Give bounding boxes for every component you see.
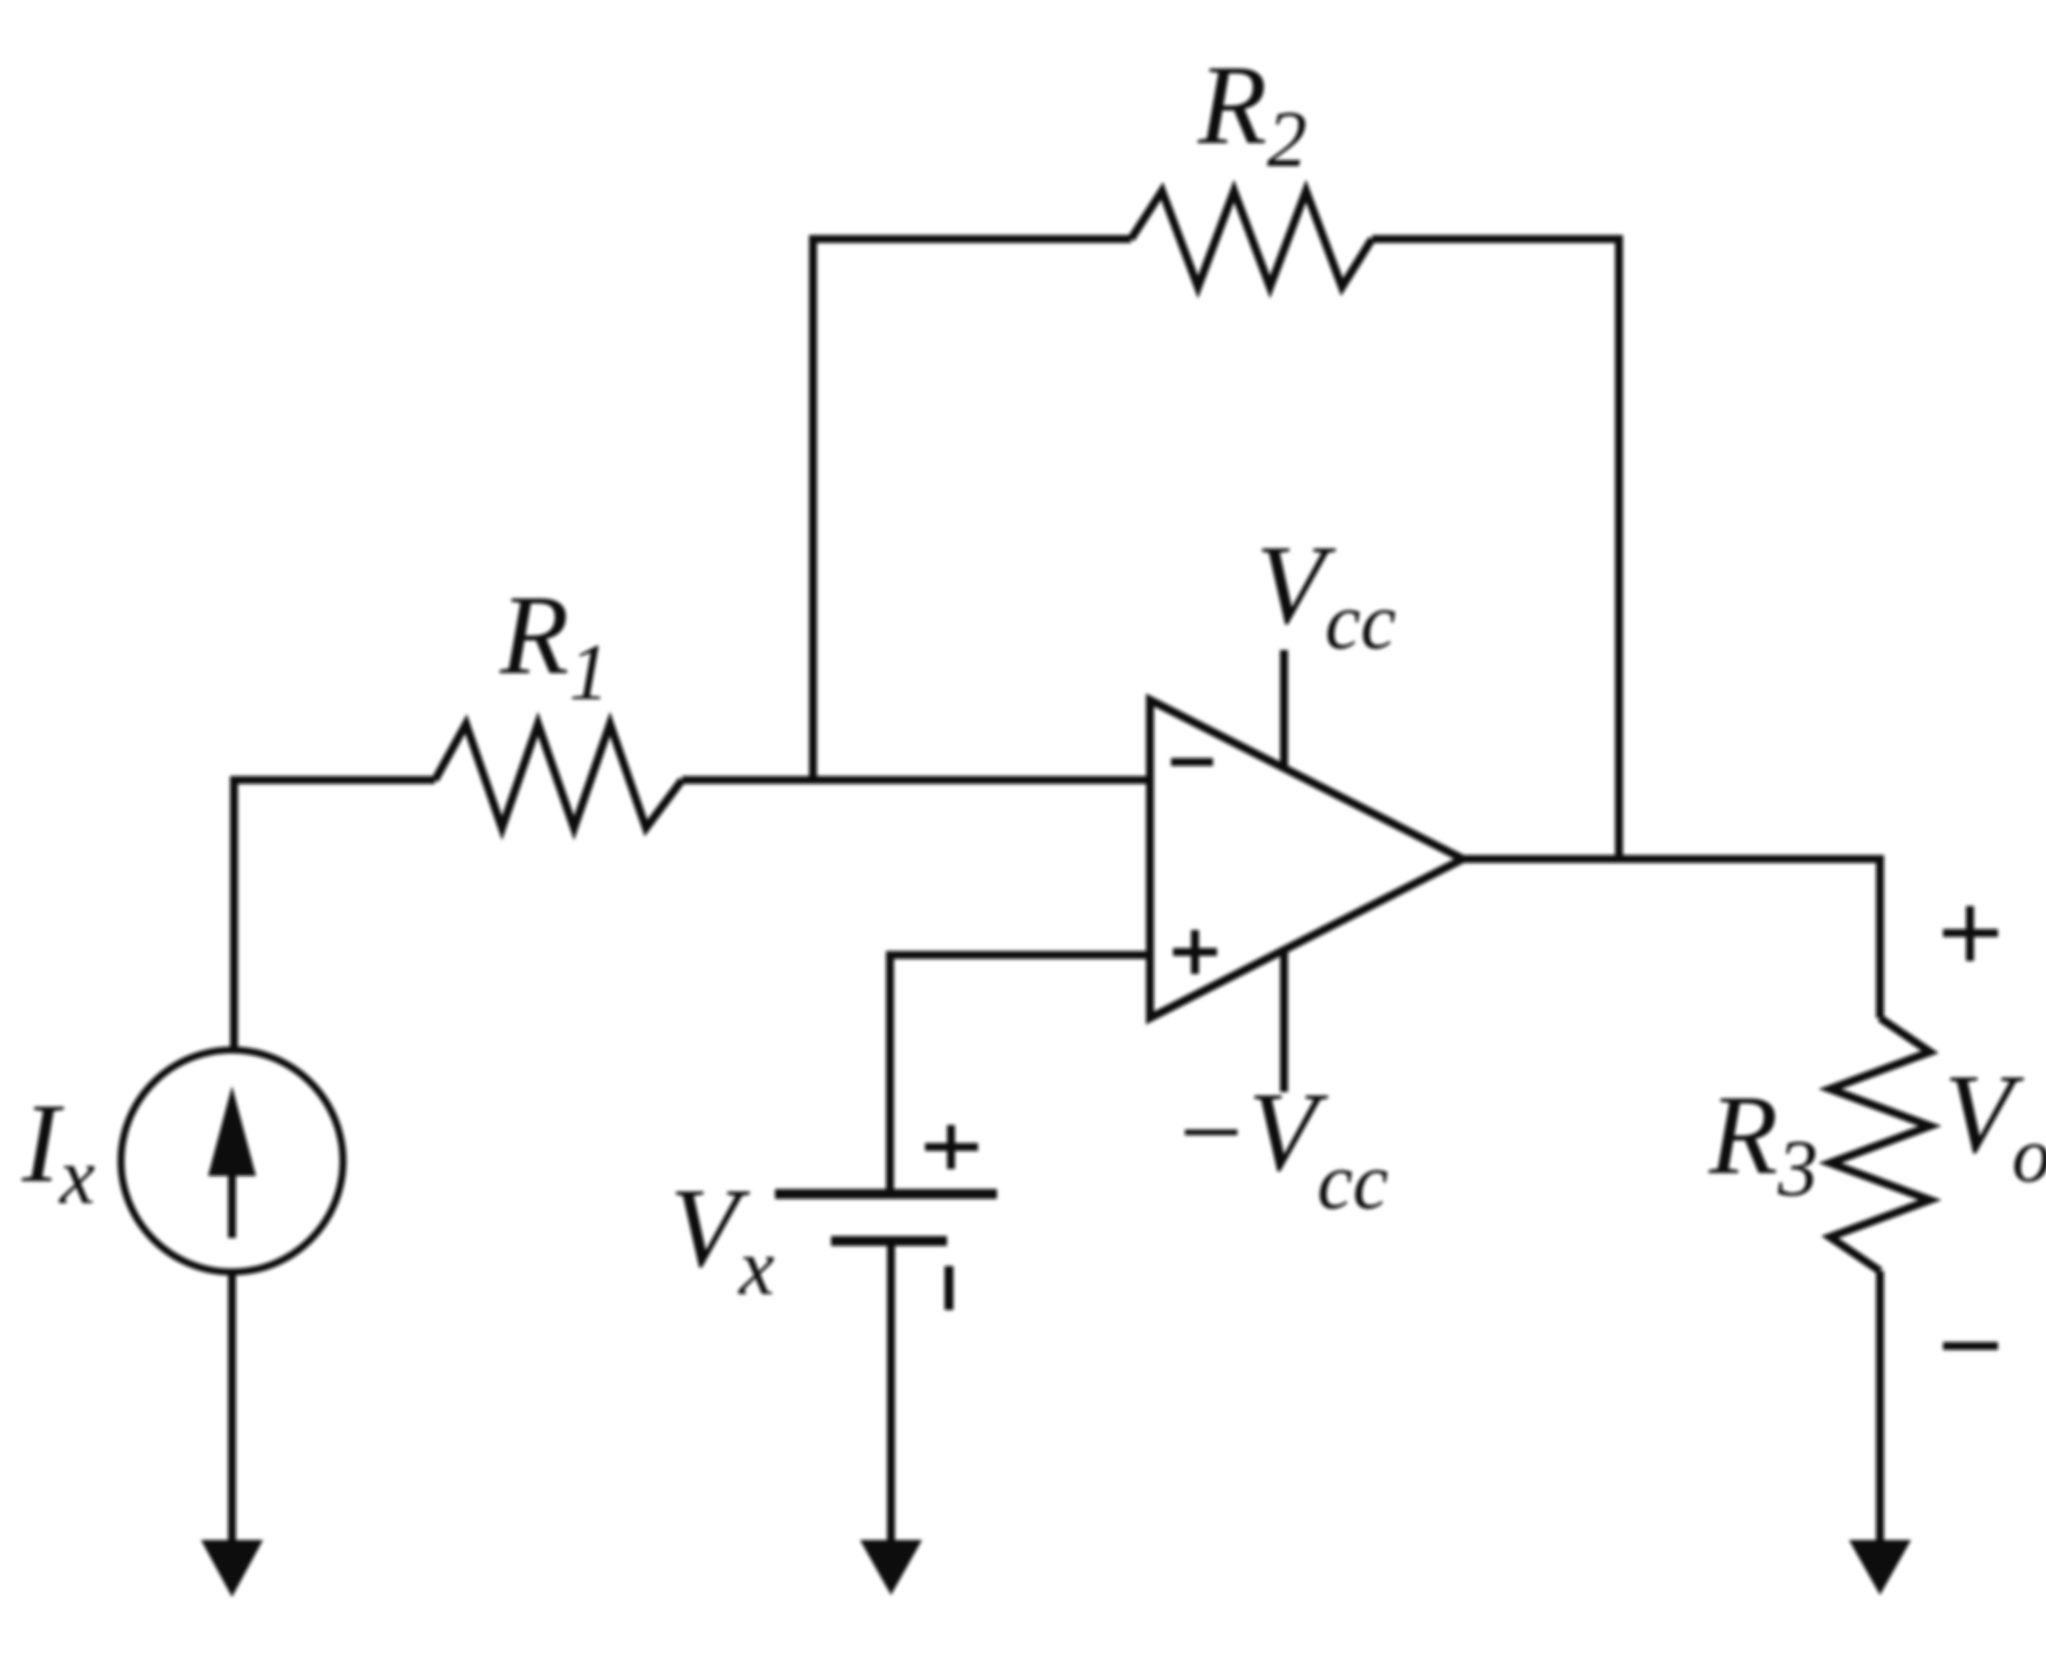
battery Vx plus sign — [925, 1125, 978, 1169]
wire current source to ground arrow — [228, 1272, 236, 1542]
wire output: apex to R3 top corner — [1463, 859, 1880, 1018]
wire Vcc pin — [1280, 650, 1288, 767]
current source Ix circle — [121, 1050, 343, 1272]
label Vo plus sign — [1943, 906, 1998, 961]
svg-text:Vx: Vx — [670, 1166, 775, 1312]
op-amp U1 minus input sign — [1171, 758, 1213, 766]
svg-text:Ix: Ix — [21, 1081, 95, 1221]
wire R3 to ground arrow — [1876, 1271, 1884, 1542]
svg-text:R2: R2 — [1197, 43, 1307, 184]
resistor R3 — [1830, 1018, 1930, 1271]
wire R1 to op-amp inverting input — [682, 776, 1150, 784]
battery Vx minus sign — [945, 1266, 954, 1310]
battery Vx top plate — [775, 1189, 997, 1199]
current source Ix arrow shaft — [228, 1172, 236, 1238]
resistor R1 — [435, 724, 682, 828]
ground arrow below current source — [201, 1540, 263, 1597]
label Vo minus sign — [1943, 1342, 1998, 1350]
battery Vx bottom plate — [831, 1236, 947, 1246]
op-amp U1 — [1150, 700, 1463, 1018]
op-amp U1 plus input sign — [1173, 930, 1217, 974]
ground arrow below battery — [860, 1540, 922, 1595]
svg-text:R3: R3 — [1708, 1073, 1818, 1213]
wire battery to ground arrow — [887, 1241, 895, 1542]
svg-text:Vcc: Vcc — [1256, 523, 1396, 666]
resistor R2 — [1131, 191, 1372, 287]
ground arrow below R3 — [1849, 1540, 1911, 1595]
svg-text:R1: R1 — [499, 573, 609, 717]
wire left node: from current-source top up and right to R1 — [234, 780, 435, 1050]
wire feedback left: node up to top and right to R2 — [813, 239, 1131, 780]
current source Ix arrow head — [208, 1086, 256, 1176]
wire op-amp non-inverting input to battery — [890, 955, 1150, 1194]
svg-text:o: o — [2012, 1111, 2046, 1198]
svg-text:−Vcc: −Vcc — [1172, 1070, 1388, 1226]
wire feedback right: R2 to output node — [1372, 239, 1619, 859]
wire -Vcc pin — [1280, 951, 1288, 1092]
